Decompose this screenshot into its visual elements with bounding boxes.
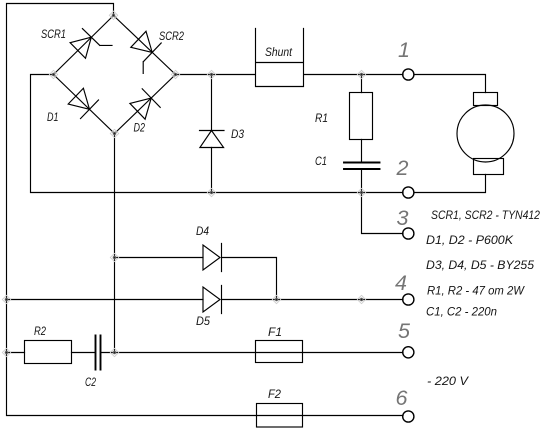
svg-text:SCR1: SCR1 (41, 27, 66, 41)
svg-text:D3: D3 (231, 127, 244, 141)
svg-text:SCR1, SCR2 - TYN412: SCR1, SCR2 - TYN412 (431, 208, 540, 222)
svg-text:3: 3 (397, 206, 409, 230)
svg-text:R2: R2 (34, 324, 46, 338)
svg-text:SCR2: SCR2 (159, 29, 184, 43)
svg-text:D5: D5 (196, 314, 210, 328)
svg-text:5: 5 (398, 319, 411, 343)
svg-text:D4: D4 (196, 224, 209, 238)
svg-text:C1: C1 (315, 154, 327, 168)
svg-text:D1, D2 - P600K: D1, D2 - P600K (426, 233, 514, 247)
svg-text:C2: C2 (85, 375, 96, 389)
svg-text:F1: F1 (268, 325, 282, 339)
svg-text:F2: F2 (268, 387, 281, 401)
svg-text:4: 4 (395, 271, 407, 295)
svg-text:- 220 V: - 220 V (427, 374, 469, 388)
svg-text:6: 6 (396, 386, 408, 410)
svg-text:R1: R1 (315, 111, 328, 125)
svg-text:C1, C2 - 220n: C1, C2 - 220n (426, 305, 497, 319)
svg-text:Shunt: Shunt (265, 45, 292, 59)
svg-text:D2: D2 (134, 121, 146, 135)
svg-text:1: 1 (398, 38, 410, 62)
svg-text:R1, R2 - 47 om 2W: R1, R2 - 47 om 2W (427, 284, 526, 298)
svg-text:2: 2 (396, 156, 409, 180)
svg-text:D3, D4, D5 - BY255: D3, D4, D5 - BY255 (426, 258, 534, 272)
svg-text:D1: D1 (47, 110, 59, 124)
